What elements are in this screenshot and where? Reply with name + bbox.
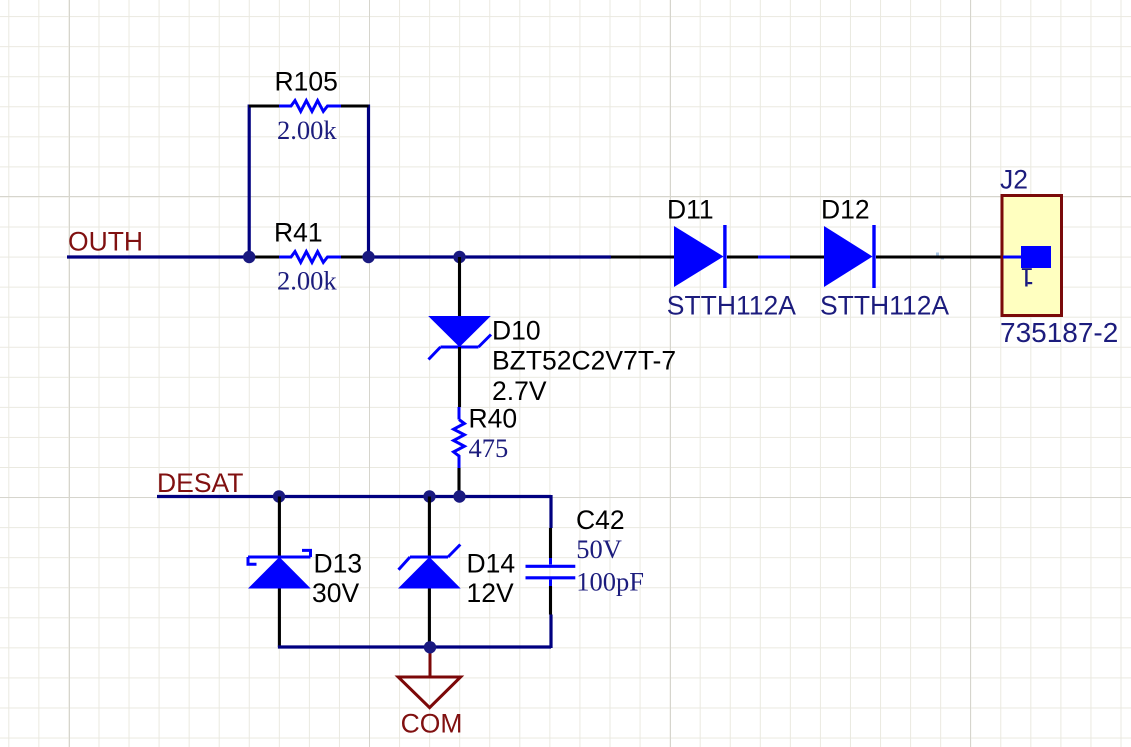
svg-text:D11: D11	[667, 195, 714, 225]
svg-text:R40: R40	[469, 404, 518, 434]
svg-text:D13: D13	[314, 549, 363, 579]
junction at D10 branch node	[453, 251, 465, 263]
svg-text:J2: J2	[1000, 165, 1028, 195]
zener diode D14	[398, 545, 461, 589]
wire D13 cathode black segment	[278, 497, 281, 558]
diode D11	[674, 225, 727, 288]
svg-text:475: 475	[469, 433, 509, 463]
wire net DESAT horizontal	[157, 495, 551, 498]
svg-text:30V: 30V	[312, 578, 359, 608]
junction at R41 left node	[243, 251, 255, 263]
wire R105 loop left vertical	[248, 105, 251, 258]
wire C42 branch upper navy segment	[549, 495, 552, 528]
zener diode D13	[248, 550, 311, 588]
svg-text:D10: D10	[492, 316, 541, 346]
svg-text:COM: COM	[401, 709, 463, 739]
wire D14 anode black segment	[428, 589, 431, 643]
svg-text:2.7V: 2.7V	[492, 376, 547, 406]
wire D13 anode black segment	[278, 589, 281, 648]
junction at bottom rail COM node	[424, 641, 436, 653]
wire C42 lower black segment	[549, 586, 552, 615]
resistor R41	[250, 252, 368, 263]
junction at DESAT/R40 node	[453, 490, 465, 502]
wire C42 lower navy segment	[549, 615, 552, 649]
wire D12 anode black segment	[790, 255, 825, 258]
pin 1 pad square of J2	[1021, 246, 1051, 268]
wire COM stub dark red	[429, 651, 432, 677]
svg-text:2.00k: 2.00k	[277, 115, 337, 145]
ground symbol COM	[398, 677, 460, 708]
junction at DESAT/D14 node	[423, 490, 435, 502]
svg-text:STTH112A: STTH112A	[667, 291, 796, 321]
svg-text:DESAT: DESAT	[157, 468, 243, 498]
svg-text:735187-2: 735187-2	[1000, 317, 1118, 348]
wire D11 cathode black segment	[727, 255, 758, 258]
svg-text:BZT52C2V7T-7: BZT52C2V7T-7	[492, 346, 676, 376]
pin end marker artifacts	[936, 253, 939, 256]
pin 1 lead of J2	[1003, 256, 1021, 259]
svg-text:R105: R105	[275, 67, 338, 97]
wire bottom rail navy	[278, 645, 551, 648]
zener diode D10	[428, 316, 491, 360]
svg-text:D12: D12	[821, 195, 870, 225]
svg-text:50V: 50V	[576, 534, 622, 564]
diode D12	[824, 225, 876, 288]
wire R105 loop right vertical	[367, 105, 370, 258]
junction at R41 right node	[362, 251, 374, 263]
wire C42 upper black segment	[549, 528, 552, 558]
svg-text:100pF: 100pF	[576, 567, 644, 597]
svg-text:2.00k: 2.00k	[277, 266, 337, 296]
svg-text:C42: C42	[576, 505, 625, 535]
wire D10 cathode to R40 black segment	[458, 347, 461, 407]
wire net OUTH middle segment	[368, 255, 611, 258]
wire net OUTH left segment	[67, 255, 250, 258]
svg-text:12V: 12V	[467, 578, 514, 608]
svg-text:D14: D14	[467, 549, 516, 579]
svg-text:STTH112A: STTH112A	[820, 291, 949, 321]
resistor R105	[249, 101, 369, 112]
wire pin stub blue segment between D11 and D12	[758, 256, 790, 259]
svg-text:OUTH: OUTH	[68, 227, 143, 257]
wire black segment to D11 anode	[611, 255, 675, 258]
wire D14 cathode black segment	[428, 497, 431, 558]
wire D10 branch upper black segment	[458, 257, 461, 317]
resistor R40	[454, 407, 465, 497]
svg-text:R41: R41	[274, 218, 323, 248]
capacitor C42	[526, 558, 576, 586]
pin number 1 of J2	[1022, 268, 1032, 286]
wire D12 cathode to J2	[876, 255, 1002, 258]
junction at DESAT/D13 node	[273, 490, 285, 502]
connector J2 body	[1002, 196, 1062, 316]
